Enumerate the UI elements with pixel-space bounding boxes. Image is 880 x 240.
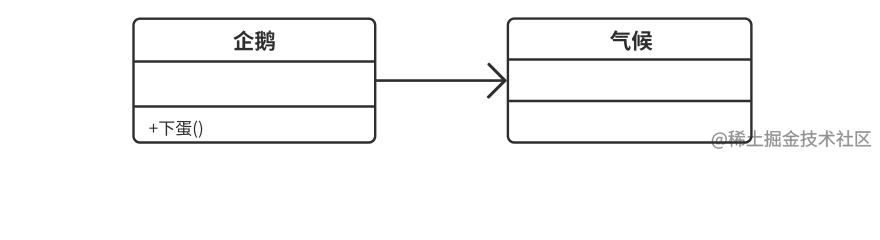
气候 compartment divider 2 [508, 100, 752, 102]
association arrow shaft 企鹅→气候 [376, 79, 505, 82]
class title text 企鹅 [233, 30, 275, 50]
class box 企鹅 (Penguin) outer frame [134, 19, 376, 143]
企鹅 compartment divider 1 [134, 60, 376, 62]
association arrow open head [489, 64, 506, 97]
class box 气候 (Climate) outer frame [508, 19, 752, 143]
企鹅 compartment divider 2 [134, 105, 376, 107]
气候 compartment divider 1 [508, 58, 752, 60]
method text +下蛋() [149, 121, 202, 138]
watermark @稀土掘金技术社区 [712, 130, 871, 148]
class title text 气候 [610, 30, 653, 50]
